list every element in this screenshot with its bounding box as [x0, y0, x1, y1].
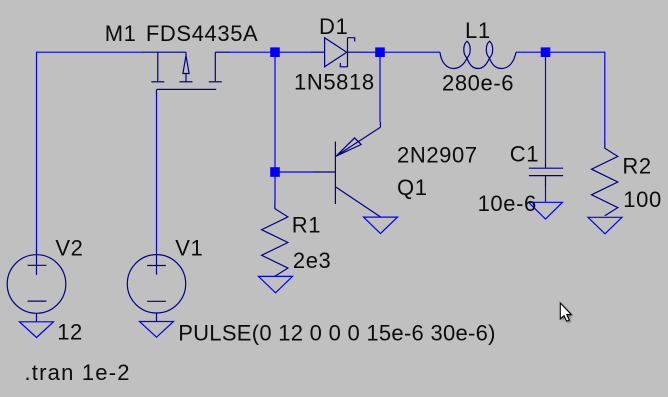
node junction at L1 output — [541, 47, 551, 57]
svg-text:V2: V2 — [55, 236, 83, 261]
svg-text:2e3: 2e3 — [293, 248, 332, 273]
transistor M1 (PMOS FDS4435A) — [142, 52, 230, 96]
ground below C1 — [529, 202, 563, 219]
ground below Q1 collector — [364, 217, 398, 233]
voltage source V2 — [7, 250, 66, 322]
wire — [545, 57, 547, 165]
svg-text:.tran 1e-2: .tran 1e-2 — [25, 360, 131, 385]
wire — [279, 171, 313, 173]
wire — [516, 51, 541, 53]
resistor R1 — [262, 201, 288, 276]
resistor R2 — [592, 141, 618, 216]
wire — [364, 51, 376, 53]
ground below V2 — [20, 322, 54, 338]
inductor L1 — [440, 41, 516, 68]
wire — [37, 52, 143, 254]
mouse cursor — [560, 303, 573, 323]
wire — [274, 177, 276, 202]
svg-text:FDS4435A: FDS4435A — [146, 21, 258, 46]
wire — [550, 52, 605, 141]
diode D1 (schottky 1N5818) — [311, 38, 364, 67]
svg-text:280e-6: 280e-6 — [442, 71, 514, 96]
svg-text:R1: R1 — [292, 213, 321, 238]
svg-text:100: 100 — [623, 187, 662, 212]
wire — [230, 51, 271, 53]
transistor Q1 (PNP 2N2907) — [313, 122, 380, 217]
svg-text:12: 12 — [57, 319, 83, 344]
wire — [545, 187, 547, 202]
wire — [279, 51, 311, 53]
svg-text:M1: M1 — [105, 21, 137, 46]
ground below R1 — [259, 276, 293, 292]
node junction at D1 anode — [270, 47, 280, 57]
wire — [274, 57, 276, 169]
svg-text:10e-6: 10e-6 — [478, 191, 537, 216]
svg-text:R2: R2 — [622, 153, 651, 178]
node junction at D1 cathode — [375, 47, 385, 57]
svg-text:PULSE(0 12 0 0 0 15e-6 30e-6): PULSE(0 12 0 0 0 15e-6 30e-6) — [178, 321, 496, 346]
svg-text:C1: C1 — [510, 142, 539, 167]
svg-text:Q1: Q1 — [397, 175, 428, 200]
wire — [384, 51, 440, 53]
wire — [379, 57, 381, 123]
svg-text:2N2907: 2N2907 — [397, 143, 478, 168]
node junction at Q1 base — [270, 167, 280, 177]
svg-text:1N5818: 1N5818 — [294, 70, 375, 95]
ground below V1 — [140, 322, 174, 338]
voltage source V1 — [127, 250, 185, 322]
svg-text:D1: D1 — [319, 14, 348, 39]
ground below R2 — [588, 217, 622, 234]
svg-text:V1: V1 — [175, 236, 203, 261]
svg-text:L1: L1 — [465, 18, 491, 43]
wire — [156, 96, 158, 250]
capacitor C1 — [529, 164, 563, 187]
